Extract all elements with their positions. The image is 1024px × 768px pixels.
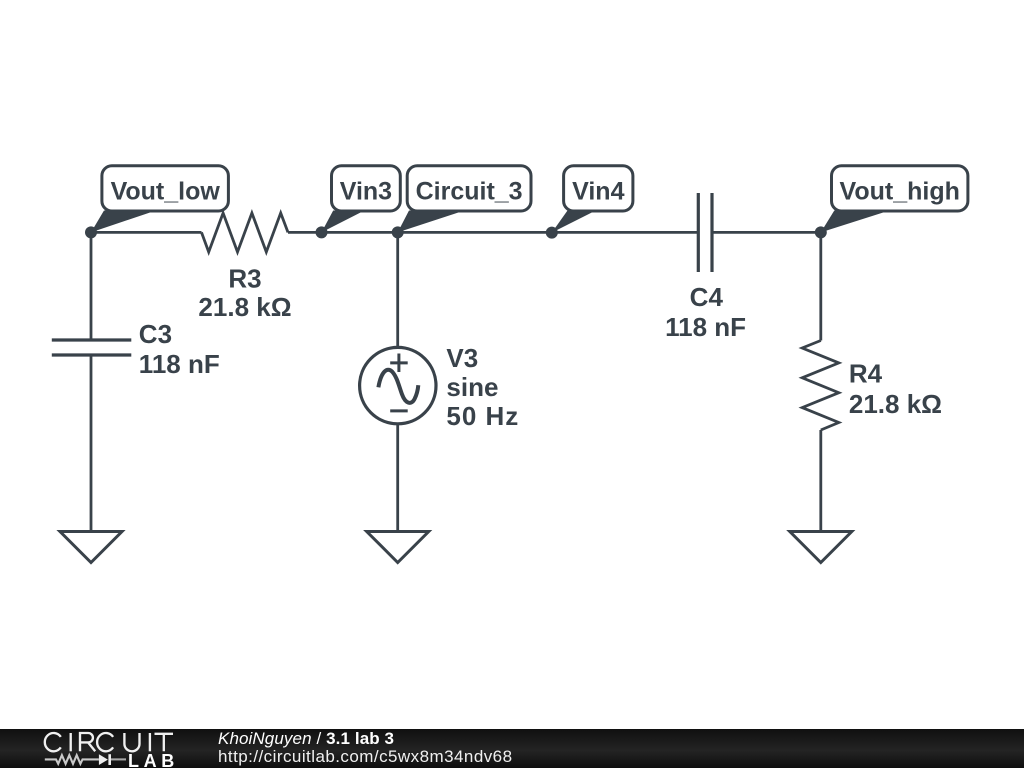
resistor R4 bbox=[802, 341, 839, 431]
wire C4 to Vout_high node bbox=[712, 231, 821, 234]
svg-text:Vout_high: Vout_high bbox=[840, 178, 960, 206]
footer bar bbox=[0, 729, 1024, 768]
logo letter T bbox=[155, 734, 174, 752]
footer url bbox=[218, 748, 513, 765]
node dot Vout_high bbox=[815, 226, 827, 238]
wire node Vout_low down to C3 bbox=[90, 232, 93, 340]
node dot Circuit_3 bbox=[392, 226, 404, 238]
ground right bbox=[790, 532, 852, 563]
circuitlab logo bbox=[0, 729, 200, 768]
svg-text:C4: C4 bbox=[690, 282, 724, 312]
footer title bbox=[218, 730, 394, 747]
wire V3 to ground bbox=[396, 424, 399, 531]
svg-text:50 Hz: 50 Hz bbox=[446, 401, 519, 431]
wire main left segment bbox=[91, 231, 202, 234]
wire Vout_high node down to R4 bbox=[819, 232, 822, 340]
wire C3 to ground bbox=[90, 355, 93, 532]
node dot Vin4 bbox=[546, 227, 558, 239]
capacitor C3 bbox=[52, 340, 132, 355]
wire R4 to ground bbox=[819, 430, 822, 532]
svg-text:Vout_low: Vout_low bbox=[111, 178, 221, 206]
ground left bbox=[60, 532, 122, 563]
svg-text:118 nF: 118 nF bbox=[139, 349, 220, 379]
ground middle bbox=[367, 532, 429, 563]
voltage source V3 bbox=[360, 347, 436, 423]
svg-text:R4: R4 bbox=[849, 359, 883, 389]
svg-text:Circuit_3: Circuit_3 bbox=[416, 178, 523, 206]
logo letter C2 bbox=[97, 733, 113, 751]
svg-text:21.8 kΩ: 21.8 kΩ bbox=[198, 292, 291, 322]
svg-text:sine: sine bbox=[446, 372, 498, 402]
svg-text:V3: V3 bbox=[446, 343, 478, 373]
node dot Vout_low bbox=[85, 226, 97, 238]
svg-text:Vin3: Vin3 bbox=[340, 178, 392, 206]
node flag Vin3 bbox=[322, 166, 401, 233]
svg-text:C3: C3 bbox=[139, 319, 172, 349]
logo letter I2 bbox=[149, 733, 151, 751]
logo letter I bbox=[70, 733, 72, 751]
node flag Vout_high bbox=[821, 166, 968, 233]
V3 sine glyph bbox=[378, 370, 418, 403]
wire R3 to C4 bbox=[288, 231, 698, 234]
node flag Vin4 bbox=[552, 166, 633, 233]
svg-text:21.8 kΩ: 21.8 kΩ bbox=[849, 389, 942, 419]
svg-text:R3: R3 bbox=[228, 264, 261, 294]
node dot Vin3 bbox=[316, 226, 328, 238]
logo resistor-diode glyph bbox=[45, 755, 99, 764]
logo LAB text bbox=[128, 752, 179, 768]
wire Circuit_3 node down to V3 bbox=[396, 232, 399, 347]
capacitor C4 bbox=[698, 193, 712, 272]
svg-text:Vin4: Vin4 bbox=[572, 178, 624, 206]
logo letter R bbox=[80, 733, 95, 751]
resistor R3 bbox=[202, 213, 289, 252]
logo letter U bbox=[124, 733, 139, 751]
node flag Circuit_3 bbox=[398, 166, 531, 233]
svg-text:118 nF: 118 nF bbox=[665, 312, 746, 342]
node flag Vout_low bbox=[91, 166, 228, 233]
logo letter C bbox=[45, 733, 61, 751]
